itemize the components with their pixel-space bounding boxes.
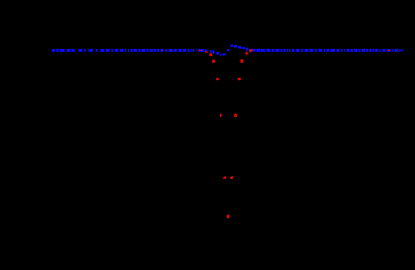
wire left chain text (blue) xyxy=(52,49,204,52)
atom O14 red dash in right chain xyxy=(388,50,391,51)
atom O8 pair B right (red) xyxy=(238,78,241,81)
atom O13 bottom single (red) xyxy=(227,215,230,219)
atom O9 pair C left (red vertical) xyxy=(220,114,222,117)
atom O12 pair D right (red step) xyxy=(230,176,233,179)
node N+ label (blue) xyxy=(210,50,215,54)
node glyph two-tone left (blue over red) xyxy=(205,50,208,53)
atom O6 pair A right (red) xyxy=(240,59,243,63)
atom O3 red wedge below right of peak xyxy=(245,52,248,55)
node superscript peak glyphs (blue) xyxy=(227,44,248,51)
node mixed run right of peak (blue base) xyxy=(249,49,256,52)
atom O4 red overlay on mixed run xyxy=(249,49,253,52)
node subscript dip glyphs (blue) xyxy=(216,52,226,56)
atom O5 pair A left (red) xyxy=(212,60,215,64)
atom red tint dash left chain 2 xyxy=(161,49,172,52)
atom O11 pair D left (red step) xyxy=(223,176,226,179)
wire right chain text (blue) xyxy=(256,49,404,52)
atom O10 pair C right (red with top bump) xyxy=(234,114,237,117)
atom O2 red under N+ xyxy=(209,53,212,56)
atom red tint dash left chain 1 xyxy=(199,49,202,52)
atom O7 pair B left (red) xyxy=(216,78,219,80)
